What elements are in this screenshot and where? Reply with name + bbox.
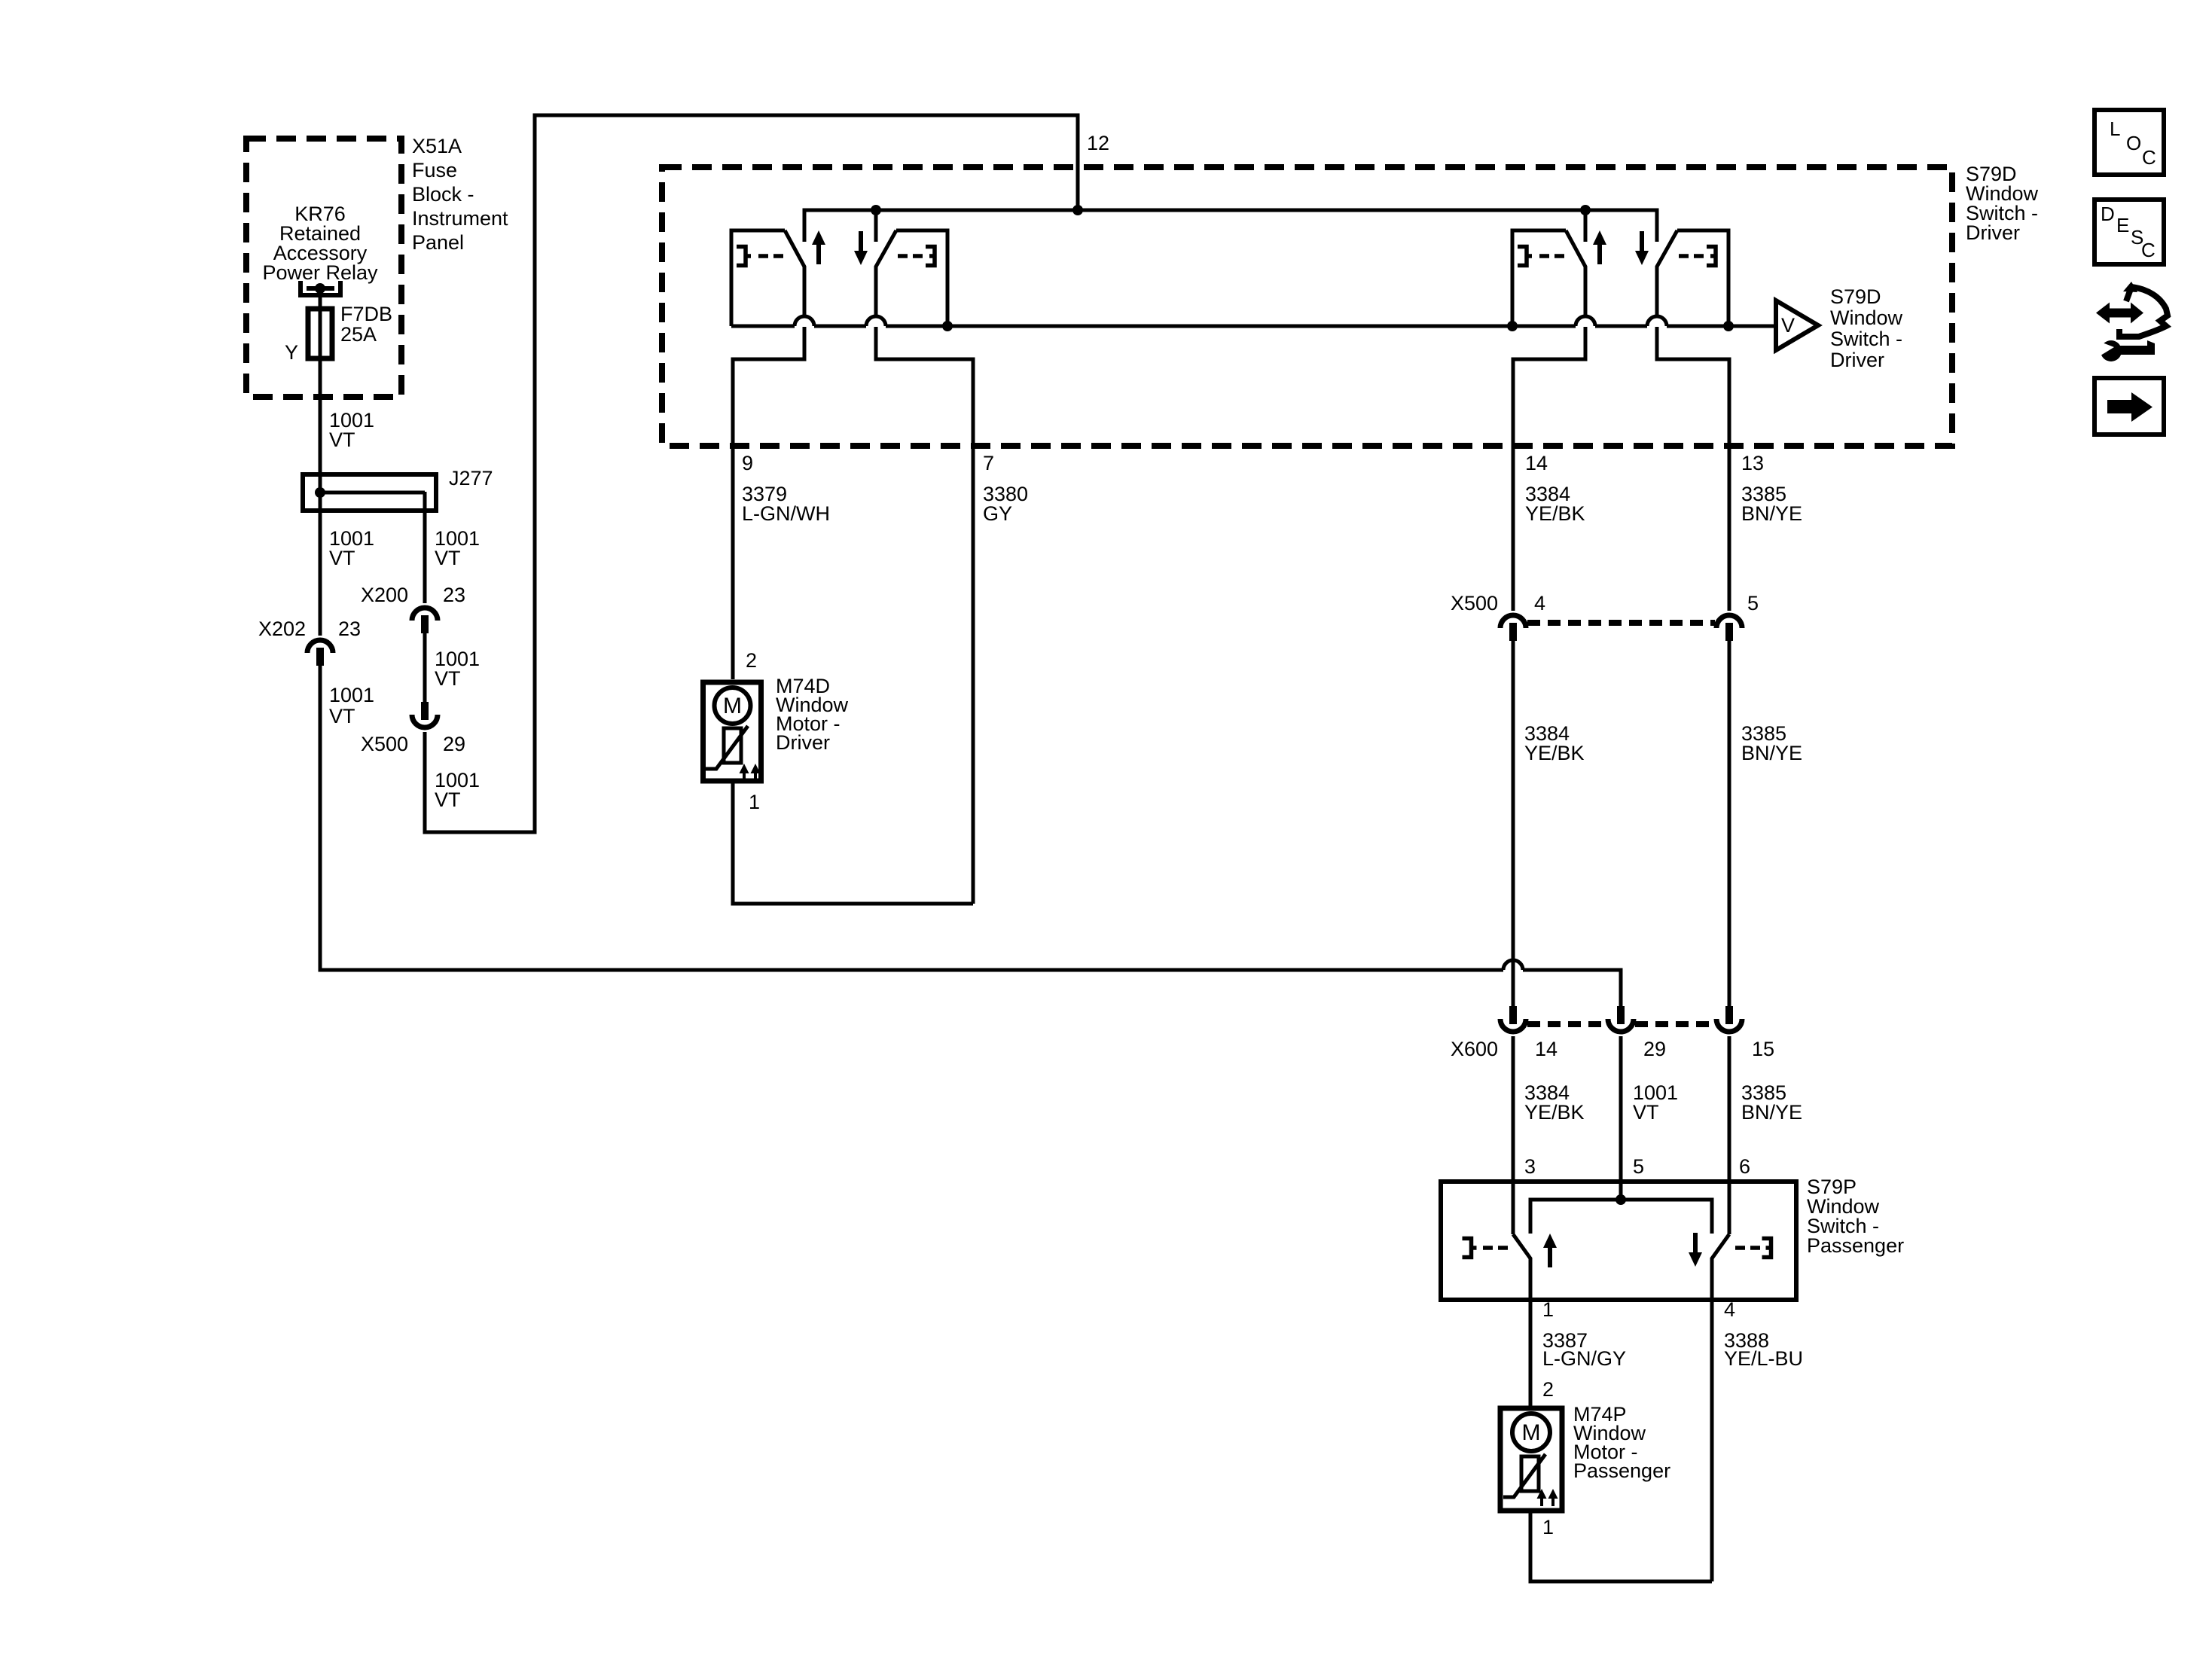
label S79D Window Switch - Driver (V) [1830, 285, 1903, 371]
wire 1001 VT feed up and over to switch pin 12 [425, 115, 1078, 832]
S79P down link dashes [1735, 1246, 1760, 1250]
svg-text:BN/YE: BN/YE [1741, 742, 1802, 764]
wire label 1001 VT below X500 [435, 769, 480, 811]
window motor M74P box [1500, 1408, 1562, 1511]
junction supply stub 1 [871, 205, 881, 215]
wire 3384 YE/BK X600 to S79P pin 3 [1512, 1036, 1515, 1234]
svg-text:V: V [1781, 314, 1795, 337]
junction supply feed [1072, 205, 1083, 215]
thermistor M74D [724, 728, 741, 763]
svg-text:YE/BK: YE/BK [1525, 502, 1585, 525]
connector X600 pin 29 [1608, 1006, 1634, 1032]
svg-text:BN/YE: BN/YE [1741, 1101, 1802, 1124]
S79P up arrow [1543, 1234, 1557, 1267]
wire label 3384 YE/BK mid [1524, 722, 1585, 764]
svg-text:23: 23 [338, 618, 361, 640]
svg-text:X202: X202 [258, 618, 306, 640]
svg-text:25A: 25A [340, 323, 377, 346]
svg-text:6: 6 [1739, 1155, 1750, 1178]
fuse F7DB 25A [308, 309, 332, 358]
svg-text:VT: VT [329, 547, 355, 569]
svg-text:VT: VT [435, 788, 461, 811]
junction S79P supply [1616, 1194, 1626, 1205]
svg-text:M: M [723, 694, 742, 718]
relay KR76 contact symbol [301, 281, 340, 295]
svg-text:29: 29 [443, 733, 465, 755]
driver switch window-up/down section 2 up-contact box [1512, 230, 1566, 326]
svg-text:Passenger: Passenger [1573, 1459, 1670, 1482]
driver switch window-up/down section 1 up-contact box [731, 230, 785, 326]
window switch S79P box [1441, 1182, 1796, 1300]
S79P up mechanical link bracket [1463, 1239, 1477, 1258]
splice pack J277 [303, 474, 436, 511]
S79P supply bus with stubs [1530, 1200, 1712, 1234]
wire J277 to X200 (1001 VT) [423, 492, 427, 603]
svg-text:9: 9 [742, 452, 753, 474]
svg-text:1: 1 [1542, 1298, 1554, 1321]
switch common bus seg 5 [1667, 325, 1776, 328]
svg-text:VT: VT [1633, 1101, 1659, 1124]
motor M74P circle [1512, 1414, 1550, 1451]
wire 3384 YE/BK to X500 pin 4 [1513, 327, 1585, 611]
svg-text:Driver: Driver [1966, 221, 2020, 244]
label F7DB 25A [340, 303, 392, 346]
svg-text:5: 5 [1747, 592, 1759, 615]
svg-text:14: 14 [1535, 1038, 1558, 1060]
fuse block X51A dashed box [246, 139, 401, 397]
wire 3380 GY to motor return [876, 327, 973, 904]
window motor M74D box [703, 682, 761, 781]
driver switch window-up/down section 2 down mechanical link bracket [1707, 247, 1716, 266]
window switch S79D dashed box [662, 167, 1952, 446]
wire label 3384 YE/BK upper [1525, 483, 1585, 525]
svg-text:Y: Y [285, 341, 298, 364]
svg-text:7: 7 [983, 452, 994, 474]
motor arrow b [751, 764, 761, 781]
svg-text:O: O [2126, 132, 2141, 154]
switch supply bus with end stubs [804, 210, 1657, 242]
svg-text:S79D: S79D [1830, 285, 1881, 308]
label KR76 Retained Accessory Power Relay [262, 203, 378, 284]
driver switch window-up/down section 2 up arrow [1593, 230, 1606, 264]
svg-text:4: 4 [1724, 1298, 1735, 1321]
wire label 3384 YE/BK lower [1524, 1081, 1585, 1124]
connector X600 pin 14 [1500, 1006, 1526, 1032]
wire label 1001 VT left branch [329, 527, 374, 569]
junction bus at box 1 [942, 321, 953, 331]
driver switch window-up/down section 1 up switch lever [785, 230, 804, 316]
svg-text:Panel: Panel [412, 231, 464, 254]
svg-text:YE/L-BU: YE/L-BU [1724, 1347, 1803, 1370]
svg-text:YE/BK: YE/BK [1524, 742, 1585, 764]
svg-text:F7DB: F7DB [340, 303, 392, 325]
junction relay output [315, 283, 325, 294]
bus hop over down lever 2 [1647, 316, 1667, 326]
svg-text:X600: X600 [1451, 1038, 1498, 1060]
svg-text:29: 29 [1643, 1038, 1666, 1060]
wire label 1001 VT between X200 and X500 [435, 648, 480, 690]
svg-text:1001: 1001 [329, 684, 374, 706]
svg-text:1: 1 [749, 791, 760, 813]
motor M74D circle [715, 688, 751, 724]
driver switch window-up/down section 1 down arrow [854, 231, 868, 265]
wire M74P return loop [1530, 1511, 1712, 1581]
svg-text:Block -: Block - [412, 183, 474, 206]
wire label 1001 VT lower [1633, 1081, 1678, 1124]
svg-text:Fuse: Fuse [412, 159, 457, 181]
driver switch window-up/down section 1 up link dashes [758, 254, 783, 258]
svg-text:GY: GY [983, 502, 1012, 525]
wire 3385 BN/YE X600 to S79P pin 6 [1728, 1036, 1731, 1234]
wire 3385 BN/YE to X500 pin 5 [1657, 327, 1729, 611]
switch common bus seg 3 [886, 325, 1576, 328]
motor arrow a [740, 764, 749, 781]
junction bus at box 2 [1507, 321, 1518, 331]
junction supply stub 2 [1580, 205, 1591, 215]
wire label 1001 VT below fuse block [329, 409, 374, 451]
switch common bus seg 1 [731, 325, 795, 328]
connector X500 pin 29 [412, 702, 438, 727]
svg-text:D: D [2101, 203, 2115, 225]
svg-text:C: C [2142, 146, 2156, 169]
svg-text:Driver: Driver [1830, 349, 1884, 371]
S79P up lever to pin 1 wire 3387 [1513, 1234, 1530, 1407]
wire label 3387 L-GN/GY [1542, 1329, 1626, 1370]
svg-text:15: 15 [1752, 1038, 1774, 1060]
wire 1001 VT from X202 to long run [320, 666, 1503, 970]
driver switch window-up/down section 1 down switch lever [876, 230, 896, 316]
svg-text:13: 13 [1741, 452, 1764, 474]
svg-text:E: E [2116, 214, 2129, 236]
label M74P Window Motor - Passenger [1573, 1403, 1670, 1482]
svg-text:C: C [2141, 239, 2156, 261]
connector X500 pin 5 [1716, 615, 1742, 641]
connector X200 pin 23 [412, 608, 438, 633]
svg-text:J277: J277 [449, 467, 493, 489]
connector X600 pin 15 [1716, 1006, 1742, 1032]
switch common bus seg 4 [1595, 325, 1647, 328]
wire label 3385 BN/YE mid [1741, 722, 1802, 764]
svg-text:M: M [1522, 1420, 1541, 1445]
svg-text:12: 12 [1087, 132, 1109, 154]
icon DESC box [2095, 200, 2164, 264]
S79P up link dashes [1483, 1246, 1508, 1250]
junction J277 [315, 487, 325, 498]
S79P down mechanical link bracket [1762, 1239, 1771, 1258]
svg-text:Passenger: Passenger [1807, 1234, 1904, 1257]
svg-text:X500: X500 [1451, 592, 1498, 615]
svg-text:Driver: Driver [776, 731, 830, 754]
wire label 3385 BN/YE upper [1741, 483, 1802, 525]
junction bus at V output [1723, 321, 1734, 331]
label X51A Fuse Block - Instrument Panel [412, 135, 508, 254]
connector X500 pin 4 [1500, 615, 1526, 641]
driver switch window-up/down section 2 down link dashes [1679, 254, 1704, 258]
wire crossover hop at 3384 wire [1503, 960, 1523, 970]
connector X202 pin 23 [307, 640, 333, 666]
voltage output symbol V [1776, 300, 1818, 350]
connector X600 dashed links [1527, 1021, 1715, 1027]
wire 3379 L-GN/WH to motor pin 2 [733, 327, 804, 679]
driver switch window-up/down section 1 down link dashes [898, 254, 923, 258]
svg-text:X51A: X51A [412, 135, 462, 157]
S79P down lever to pin 4 wire 3388 [1712, 1234, 1729, 1581]
svg-text:X500: X500 [361, 733, 408, 755]
bus hop over up lever 1 [795, 316, 814, 326]
driver switch window-up/down section 2 down switch lever [1657, 230, 1677, 316]
svg-text:4: 4 [1534, 592, 1545, 615]
thermistor M74P [1521, 1456, 1539, 1491]
icon next-page arrow box [2095, 378, 2164, 435]
passenger motor arrow b [1548, 1489, 1558, 1506]
driver switch window-up/down section 1 up mechanical link bracket [737, 247, 751, 266]
svg-text:14: 14 [1525, 452, 1548, 474]
switch common bus seg 2 [814, 325, 866, 328]
bus hop over down lever 1 [866, 316, 886, 326]
svg-text:1: 1 [1542, 1516, 1554, 1539]
wire 1001 VT long run to X600 pin 29 [1523, 970, 1621, 1006]
svg-text:Instrument: Instrument [412, 207, 508, 230]
label S79D Window Switch - Driver (box) [1966, 163, 2039, 244]
wire label 1001 VT below X202 [329, 684, 374, 727]
svg-text:Window: Window [1830, 306, 1903, 329]
label S79P Window Switch - Passenger [1807, 1176, 1904, 1257]
wire 3384 YE/BK X500 to X600 [1512, 641, 1515, 1006]
driver switch window-up/down section 1 down mechanical link bracket [926, 247, 935, 266]
wire M74D return loop [733, 783, 973, 904]
svg-text:VT: VT [435, 667, 461, 690]
svg-text:VT: VT [329, 428, 355, 451]
wire 1001 VT X600 to S79P pin 5 [1619, 1036, 1623, 1200]
svg-text:Power Relay: Power Relay [262, 261, 378, 284]
driver switch window-up/down section 2 up mechanical link bracket [1518, 247, 1532, 266]
svg-text:L-GN/GY: L-GN/GY [1542, 1347, 1626, 1370]
supply stub right-up contact [1584, 210, 1588, 242]
label M74D Window Motor - Driver [776, 675, 849, 754]
svg-text:X200: X200 [361, 584, 408, 606]
wire label 3388 YE/L-BU [1724, 1329, 1803, 1370]
svg-text:YE/BK: YE/BK [1524, 1101, 1585, 1124]
driver switch window-up/down section 2 down arrow [1635, 231, 1649, 265]
wire relay to fuse to J277 to X202 (1001 VT) [319, 292, 322, 636]
supply stub left-down contact [874, 210, 878, 242]
svg-text:2: 2 [1542, 1378, 1554, 1401]
svg-text:Switch -: Switch - [1830, 328, 1902, 350]
driver switch window-up/down section 2 up switch lever [1566, 230, 1585, 316]
svg-text:L: L [2110, 117, 2120, 140]
svg-text:3: 3 [1524, 1155, 1536, 1178]
icon diagnostic arrows and wrench [2096, 282, 2168, 361]
wire label 3385 BN/YE lower [1741, 1081, 1802, 1124]
driver switch window-up/down section 1 up arrow [812, 230, 825, 264]
wire 3385 BN/YE X500 to X600 [1728, 641, 1731, 1006]
svg-text:L-GN/WH: L-GN/WH [742, 502, 830, 525]
svg-text:VT: VT [435, 547, 461, 569]
passenger motor arrow a [1537, 1489, 1547, 1506]
wire X200 to X500 (1001 VT) [423, 633, 427, 702]
bus hop over up lever 2 [1576, 316, 1595, 326]
svg-text:5: 5 [1633, 1155, 1644, 1178]
connector X500 dashed link [1527, 620, 1715, 626]
svg-text:23: 23 [443, 584, 465, 606]
S79P down arrow [1689, 1233, 1702, 1267]
svg-text:2: 2 [746, 649, 757, 672]
svg-text:BN/YE: BN/YE [1741, 502, 1802, 525]
driver switch window-up/down section 2 down-contact box [1677, 230, 1728, 326]
J277 internal bus [320, 491, 425, 495]
driver switch window-up/down section 1 down-contact box [896, 230, 947, 326]
wire label 1001 VT right branch [435, 527, 480, 569]
driver switch window-up/down section 2 up link dashes [1539, 254, 1564, 258]
icon LOC box [2095, 110, 2164, 175]
wire label 3380 GY [983, 483, 1028, 525]
svg-text:VT: VT [329, 705, 355, 727]
wire label 3379 L-GN/WH [742, 483, 830, 525]
